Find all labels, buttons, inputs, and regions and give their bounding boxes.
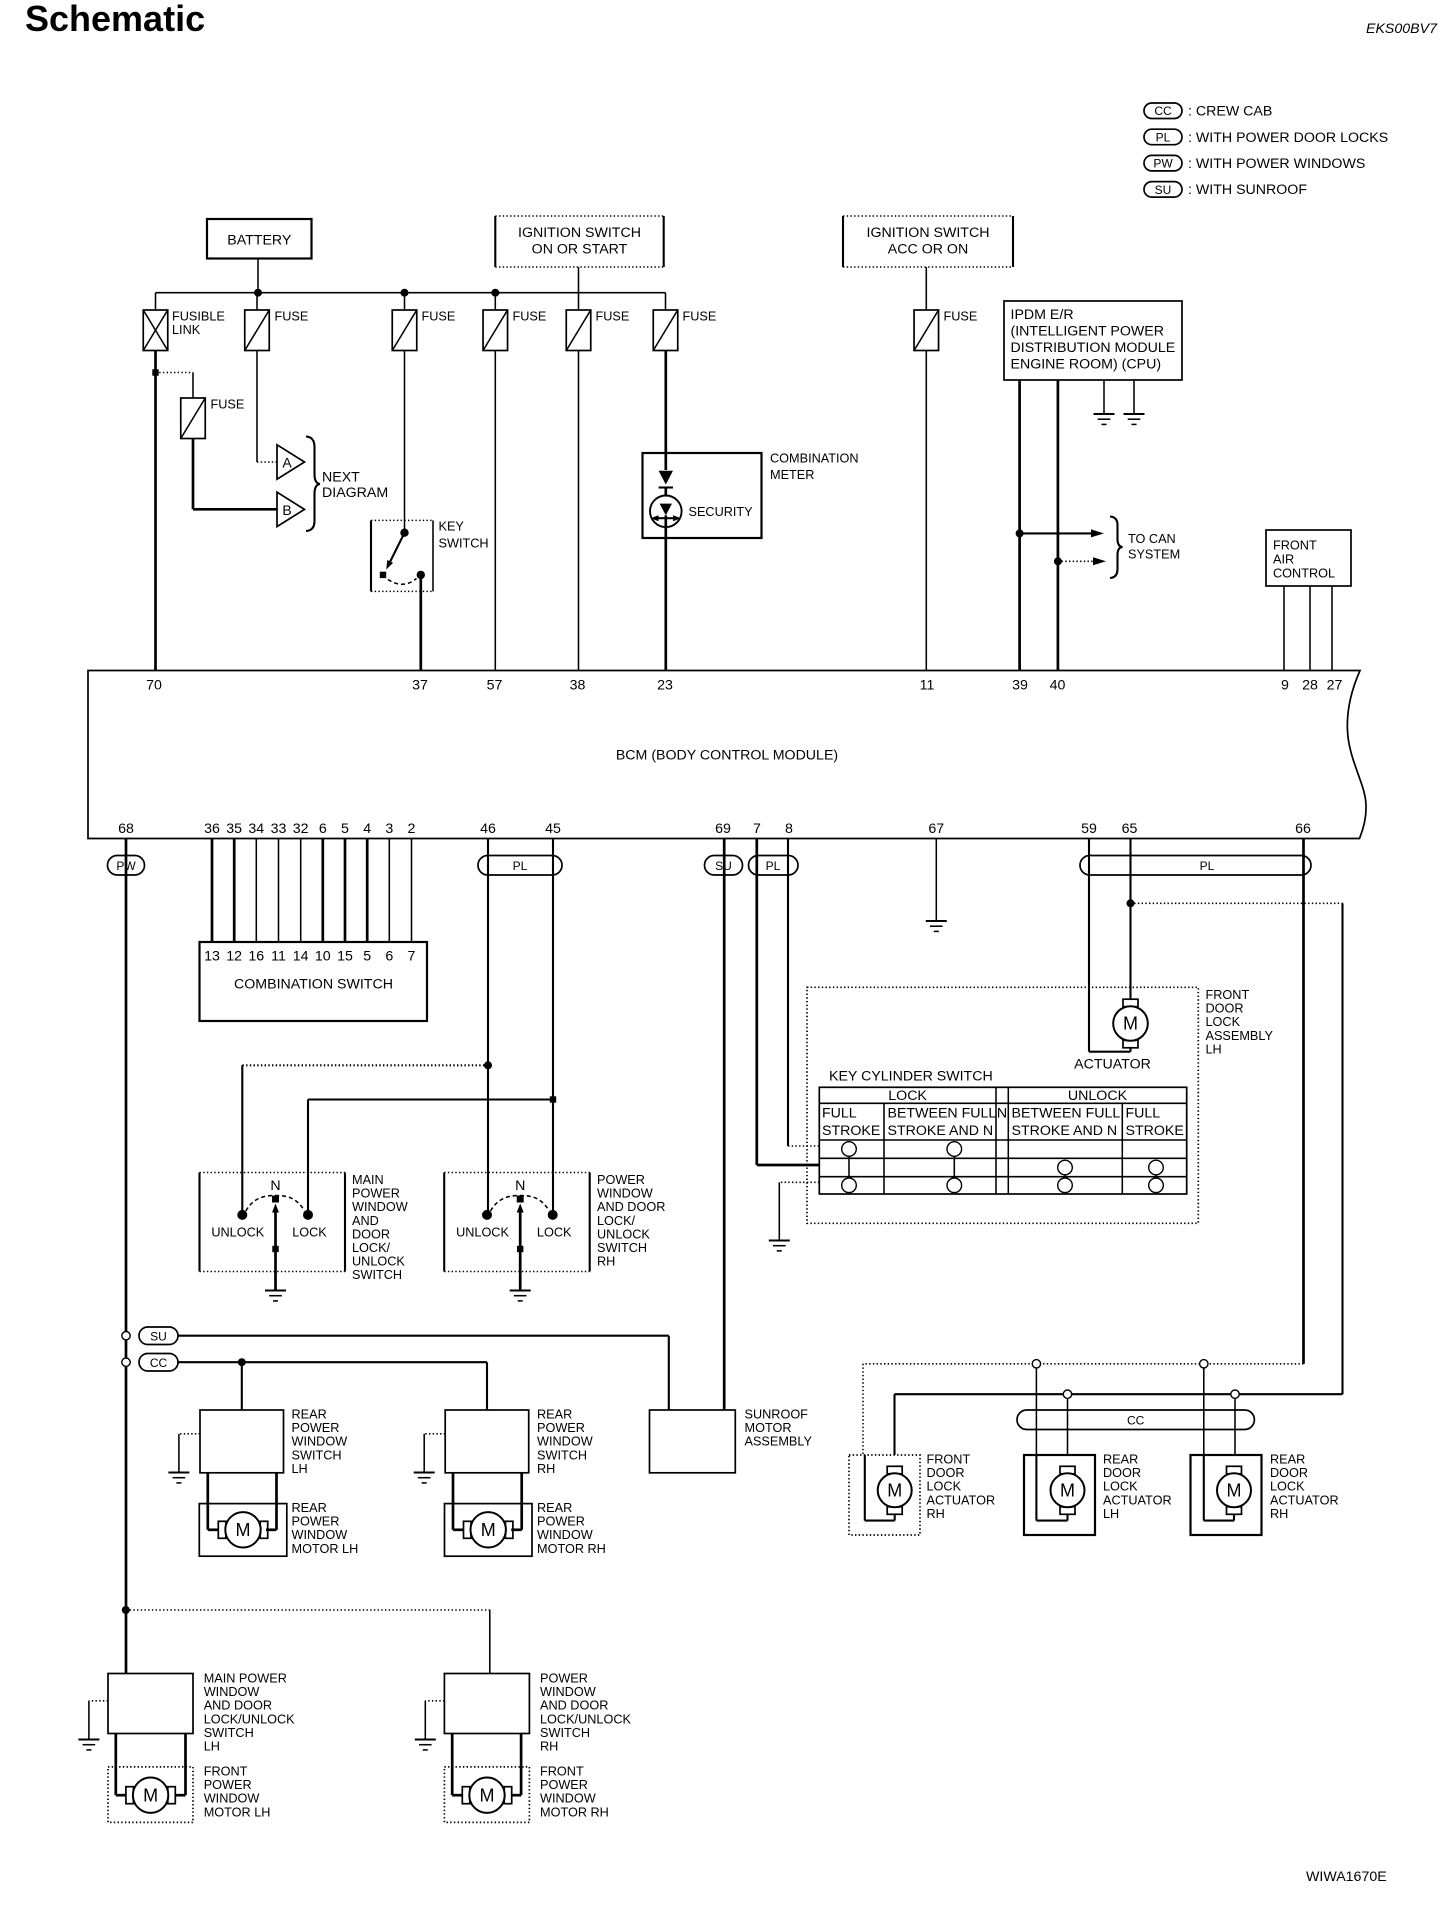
svg-text:: WITH POWER DOOR LOCKS: : WITH POWER DOOR LOCKS — [1188, 130, 1388, 146]
svg-text:WINDOW: WINDOW — [292, 1435, 348, 1449]
combination switch box — [200, 942, 428, 1021]
svg-text:REAR: REAR — [537, 1501, 572, 1515]
connector pill PL (59/65/66) — [1080, 856, 1311, 876]
connector pill CC — [139, 1354, 178, 1372]
svg-text:PW: PW — [1153, 157, 1173, 171]
svg-text:MAIN: MAIN — [352, 1173, 384, 1187]
wire fuse F7 to BCM pin 11 — [925, 351, 927, 671]
rear power window switch LH ground stub — [179, 1433, 200, 1435]
table circle links unlock side — [1064, 1175, 1066, 1178]
svg-text:M: M — [887, 1481, 902, 1501]
bracket CAN — [1110, 517, 1123, 579]
svg-text:LOCK/UNLOCK: LOCK/UNLOCK — [540, 1712, 631, 1726]
svg-text:POWER: POWER — [292, 1421, 340, 1435]
wires switch to motor LH — [206, 1473, 209, 1530]
svg-text:39: 39 — [1012, 678, 1028, 694]
svg-text:45: 45 — [545, 821, 561, 837]
fusible link FL — [143, 310, 168, 351]
svg-text:STROKE AND N: STROKE AND N — [888, 1123, 994, 1139]
power window and door lock/unlock switch RH wiper arrow — [519, 1207, 522, 1272]
arrow to CAN system 2 — [1058, 560, 1094, 562]
connector pill CC (actuators) — [1017, 1410, 1254, 1430]
svg-text:SWITCH: SWITCH — [439, 537, 489, 551]
svg-text:FUSE: FUSE — [211, 398, 245, 412]
svg-text:IPDM E/R: IPDM E/R — [1011, 307, 1074, 323]
svg-text:14: 14 — [293, 949, 309, 965]
svg-text:AND DOOR: AND DOOR — [540, 1699, 608, 1713]
ground switch — [415, 1738, 436, 1740]
svg-text:11: 11 — [920, 678, 935, 694]
svg-text:LH: LH — [1206, 1042, 1222, 1056]
svg-text:(INTELLIGENT POWER: (INTELLIGENT POWER — [1011, 324, 1164, 340]
svg-text:IGNITION SWITCH: IGNITION SWITCH — [518, 225, 641, 241]
front power window motor — [462, 1787, 470, 1804]
svg-text:WIWA1670E: WIWA1670E — [1306, 1869, 1387, 1885]
junction CAN-H — [1016, 529, 1024, 537]
svg-text:STROKE: STROKE — [822, 1123, 880, 1139]
wire FL branch to fuse F8 — [156, 372, 194, 374]
option connector circle 66-net rear RH — [1200, 1360, 1208, 1368]
wire BCM pin 68 PW net down left side — [125, 839, 128, 1674]
svg-text:ASSEMBLY: ASSEMBLY — [745, 1435, 813, 1449]
ground rear power window switch LH — [168, 1471, 189, 1473]
svg-text:LOCK: LOCK — [292, 1226, 327, 1240]
front door lock assembly LH box — [807, 987, 1198, 1223]
rear power window motor RH — [464, 1521, 472, 1538]
wire fuse F2 to triangle A — [256, 351, 258, 463]
svg-text:SWITCH: SWITCH — [204, 1726, 254, 1740]
svg-text:RH: RH — [1270, 1507, 1288, 1521]
svg-text:5: 5 — [363, 949, 371, 965]
svg-text:CC: CC — [1154, 104, 1172, 118]
junction pin45 net — [550, 1096, 556, 1102]
svg-text:MOTOR LH: MOTOR LH — [204, 1805, 271, 1819]
ground IPDM 2 — [1124, 413, 1145, 415]
svg-text:KEY CYLINDER SWITCH: KEY CYLINDER SWITCH — [829, 1069, 993, 1085]
bracket next diagram — [306, 437, 320, 532]
svg-text:SUNROOF: SUNROOF — [745, 1408, 809, 1422]
svg-text:AND DOOR: AND DOOR — [204, 1699, 272, 1713]
svg-text:ENGINE ROOM) (CPU): ENGINE ROOM) (CPU) — [1011, 357, 1162, 373]
svg-text:SWITCH: SWITCH — [537, 1448, 587, 1462]
fuse F5 — [566, 310, 591, 351]
svg-text:COMBINATION SWITCH: COMBINATION SWITCH — [234, 977, 393, 993]
svg-text:LOCK/: LOCK/ — [597, 1214, 636, 1228]
svg-text:BCM (BODY CONTROL MODULE): BCM (BODY CONTROL MODULE) — [616, 748, 838, 764]
wire IPDM to BCM pin 40 — [1057, 380, 1060, 671]
rear door lock actuator LH feed wires — [1035, 1455, 1037, 1521]
option connector circle 66-net rear LH — [1032, 1360, 1040, 1368]
svg-text:POWER: POWER — [204, 1778, 252, 1792]
rear door lock actuator RH box — [1191, 1455, 1262, 1535]
junction bus-fuse F3 — [401, 289, 409, 297]
wire 65-net to rear RH actuator — [1234, 1398, 1236, 1455]
power window and door lock/unlock switch RH wiper junction — [517, 1246, 523, 1252]
rear power window motor LH box — [199, 1504, 286, 1557]
junction FL branch — [152, 369, 158, 375]
wire battery to bus — [257, 259, 259, 293]
svg-text:FULL: FULL — [1126, 1106, 1161, 1122]
svg-text:WINDOW: WINDOW — [597, 1187, 653, 1201]
svg-text:POWER: POWER — [537, 1515, 585, 1529]
svg-text:PL: PL — [766, 859, 781, 873]
wire combination meter to BCM pin 23 — [664, 527, 667, 670]
power window and door lock/unlock switch RH box — [443, 1173, 445, 1272]
svg-text:MAIN POWER: MAIN POWER — [204, 1672, 287, 1686]
svg-text:LOCK: LOCK — [1270, 1480, 1305, 1494]
wire front air control to BCM pin 27 — [1331, 586, 1333, 671]
svg-text:LINK: LINK — [172, 323, 201, 337]
front power window motor box — [444, 1767, 529, 1823]
svg-text:CONTROL: CONTROL — [1273, 567, 1335, 581]
svg-text:7: 7 — [753, 821, 761, 837]
wire key switch to BCM pin 37 — [419, 575, 422, 671]
svg-text:METER: METER — [770, 468, 814, 482]
svg-text:LH: LH — [204, 1740, 220, 1754]
svg-text:27: 27 — [1327, 678, 1343, 694]
diode — [659, 471, 673, 485]
svg-text:LOCK: LOCK — [1206, 1015, 1241, 1029]
power window/door switch box — [108, 1674, 193, 1734]
wires switch to motor — [114, 1734, 117, 1796]
svg-text:AND: AND — [352, 1214, 379, 1228]
ground BCM pin 67 — [926, 920, 947, 922]
svg-text:SECURITY: SECURITY — [689, 505, 754, 519]
wire BCM pin 67 to ground — [935, 839, 937, 922]
svg-text:CC: CC — [1127, 1414, 1145, 1428]
wire IPDM to ground 2 — [1133, 380, 1135, 414]
legend pill PL — [1144, 129, 1182, 145]
svg-text:ACTUATOR: ACTUATOR — [1074, 1057, 1151, 1073]
junction pin46 net — [484, 1061, 492, 1069]
svg-text:68: 68 — [118, 821, 134, 837]
svg-text:PL: PL — [1200, 859, 1215, 873]
legend pill CC — [1144, 103, 1182, 119]
svg-text:11: 11 — [271, 949, 286, 965]
key switch contact in — [400, 529, 408, 537]
svg-text:ACTUATOR: ACTUATOR — [1270, 1493, 1339, 1507]
power window and door lock/unlock switch RH contact UNLOCK — [482, 1210, 492, 1220]
table contact circles row B — [1058, 1160, 1073, 1175]
svg-text:38: 38 — [570, 678, 586, 694]
power window and door lock/unlock switch RH ground — [510, 1289, 531, 1291]
wire front air control to BCM pin 28 — [1309, 586, 1311, 671]
rear door lock actuator RH motor — [1227, 1466, 1242, 1474]
svg-text:STROKE AND N: STROKE AND N — [1012, 1123, 1118, 1139]
svg-text:REAR: REAR — [292, 1408, 327, 1422]
rear door lock actuator LH box — [1024, 1455, 1095, 1535]
svg-text:M: M — [1227, 1481, 1242, 1501]
svg-text:WINDOW: WINDOW — [204, 1792, 260, 1806]
svg-text:32: 32 — [293, 821, 309, 837]
svg-text:70: 70 — [146, 678, 162, 694]
svg-text:LOCK: LOCK — [888, 1088, 927, 1104]
svg-text:POWER: POWER — [352, 1187, 400, 1201]
ground key cylinder switch — [769, 1239, 790, 1241]
svg-text:REAR: REAR — [537, 1408, 572, 1422]
svg-text:POWER: POWER — [292, 1515, 340, 1529]
svg-text:6: 6 — [385, 949, 393, 965]
svg-text:SU: SU — [1155, 183, 1172, 197]
svg-text:FRONT: FRONT — [1273, 539, 1317, 553]
junction bus-battery — [254, 289, 262, 297]
svg-text:FRONT: FRONT — [204, 1765, 248, 1779]
svg-text:15: 15 — [337, 949, 353, 965]
option connector circle 65-net rear RH — [1231, 1390, 1239, 1398]
connector pill PW — [108, 856, 145, 876]
fuse F2 — [245, 310, 270, 351]
main power window and door lock/unlock switch pole square — [272, 1196, 279, 1203]
svg-text:35: 35 — [226, 821, 242, 837]
option connector circle CC tap — [122, 1358, 130, 1366]
connector pill PL (46/45) — [478, 856, 562, 876]
svg-text:M: M — [236, 1520, 251, 1540]
front door lock actuator RH feed wires — [864, 1455, 866, 1521]
svg-text:WINDOW: WINDOW — [540, 1792, 596, 1806]
wire FL to BCM pin 70 — [154, 351, 157, 671]
svg-text:BETWEEN FULL: BETWEEN FULL — [888, 1106, 997, 1122]
svg-text:8: 8 — [785, 821, 793, 837]
svg-text:A: A — [282, 455, 292, 471]
svg-text:LOCK: LOCK — [1103, 1480, 1138, 1494]
svg-text:POWER: POWER — [540, 1778, 588, 1792]
main power window and door lock/unlock switch dashed arc — [246, 1196, 305, 1212]
wire fuse F4 to BCM pin 57 — [494, 351, 496, 671]
svg-text:LOCK/: LOCK/ — [352, 1241, 391, 1255]
wire BCM pin 45 net — [552, 839, 554, 1215]
key switch lever — [389, 533, 405, 565]
svg-text:TO CAN: TO CAN — [1128, 532, 1176, 546]
wire CC net to rear window switches — [178, 1361, 487, 1363]
svg-text:REAR: REAR — [292, 1501, 327, 1515]
off-page triangle B — [277, 492, 305, 526]
wires switch to motor — [451, 1734, 454, 1796]
svg-text:B: B — [282, 502, 291, 518]
svg-text:EKS00BV7: EKS00BV7 — [1366, 21, 1438, 37]
wires BCM pins 36-2 to combination switch — [211, 839, 214, 943]
svg-text:36: 36 — [204, 821, 220, 837]
svg-text:KEY: KEY — [439, 520, 465, 534]
front power window motor — [126, 1787, 133, 1804]
wire PW branch to switch RH — [126, 1609, 490, 1611]
switch ground stub — [425, 1700, 444, 1702]
battery power bus — [156, 292, 666, 294]
svg-text:7: 7 — [408, 949, 416, 965]
combination meter box — [643, 453, 762, 538]
junction PW net branch — [122, 1606, 130, 1614]
power window and door lock/unlock switch RH pole square — [517, 1196, 524, 1203]
wire ignition ON/START to fuse F5 — [578, 267, 580, 310]
table contact circles row C — [842, 1178, 857, 1193]
svg-text:DISTRIBUTION MODULE: DISTRIBUTION MODULE — [1011, 340, 1176, 356]
svg-text:Schematic: Schematic — [25, 0, 205, 39]
fuse F7 — [914, 310, 939, 351]
svg-text:RH: RH — [597, 1255, 615, 1269]
BCM body control module box — [88, 671, 1366, 839]
svg-text:RH: RH — [927, 1507, 945, 1521]
svg-text:28: 28 — [1302, 678, 1318, 694]
svg-text:DOOR: DOOR — [1270, 1466, 1308, 1480]
key switch dashed arc — [388, 579, 417, 585]
svg-text:UNLOCK: UNLOCK — [211, 1226, 264, 1240]
svg-text:FULL: FULL — [822, 1106, 857, 1122]
wires switch to motor RH — [452, 1473, 455, 1530]
svg-text:WINDOW: WINDOW — [292, 1528, 348, 1542]
svg-text:9: 9 — [1281, 678, 1289, 694]
wire table row C to ground — [779, 1181, 819, 1183]
key switch contact pole — [380, 572, 386, 578]
connector pill SU (69) — [705, 856, 743, 876]
svg-text:REAR: REAR — [1270, 1453, 1305, 1467]
main power window and door lock/unlock switch wiper junction — [272, 1246, 278, 1252]
svg-text:FUSIBLE: FUSIBLE — [172, 310, 225, 324]
svg-text:PL: PL — [1156, 130, 1171, 144]
svg-text:MOTOR: MOTOR — [745, 1421, 792, 1435]
table contact circles row A — [842, 1142, 857, 1157]
front door lock actuator RH box — [849, 1455, 920, 1535]
battery box — [207, 219, 312, 259]
ground switch — [78, 1738, 99, 1740]
svg-text:POWER: POWER — [537, 1421, 585, 1435]
svg-text:REAR: REAR — [1103, 1453, 1138, 1467]
junction bus-fuse F4 — [491, 289, 499, 297]
svg-text:: CREW CAB: : CREW CAB — [1188, 104, 1272, 120]
junction CAN-L — [1054, 557, 1062, 565]
svg-text:POWER: POWER — [540, 1672, 588, 1686]
svg-text:AND DOOR: AND DOOR — [597, 1200, 665, 1214]
svg-text:23: 23 — [657, 678, 673, 694]
main power window and door lock/unlock switch wiper arrow — [274, 1207, 277, 1272]
svg-text:N: N — [515, 1178, 525, 1194]
legend pill SU — [1144, 182, 1182, 198]
svg-text:37: 37 — [412, 678, 428, 694]
svg-text:SU: SU — [150, 1330, 167, 1344]
svg-text:M: M — [481, 1520, 496, 1540]
svg-text:DIAGRAM: DIAGRAM — [322, 485, 388, 501]
svg-text:SWITCH: SWITCH — [292, 1448, 342, 1462]
svg-text:M: M — [1060, 1481, 1075, 1501]
svg-text:MOTOR RH: MOTOR RH — [540, 1805, 609, 1819]
svg-text:BETWEEN FULL: BETWEEN FULL — [1012, 1106, 1121, 1122]
legend pill PW — [1144, 155, 1182, 171]
wire BCM pin 59 into assembly — [1088, 839, 1090, 1052]
svg-text:LOCK/UNLOCK: LOCK/UNLOCK — [204, 1712, 295, 1726]
svg-text:69: 69 — [715, 821, 731, 837]
svg-text:DOOR: DOOR — [927, 1466, 965, 1480]
svg-text:59: 59 — [1081, 821, 1097, 837]
svg-text:N: N — [270, 1178, 280, 1194]
option connector circle SU tap — [122, 1332, 130, 1340]
svg-text:FUSE: FUSE — [513, 310, 547, 324]
svg-text:BATTERY: BATTERY — [227, 233, 292, 249]
svg-text:FRONT: FRONT — [540, 1765, 584, 1779]
svg-text:65: 65 — [1122, 821, 1138, 837]
key switch box — [370, 520, 372, 591]
svg-text:RH: RH — [540, 1740, 558, 1754]
svg-text:N: N — [997, 1106, 1007, 1122]
svg-text:66: 66 — [1295, 821, 1311, 837]
svg-text:: WITH SUNROOF: : WITH SUNROOF — [1188, 182, 1307, 198]
front power window motor box — [108, 1767, 193, 1823]
sunroof motor assembly box — [650, 1410, 736, 1473]
wire 65-net to rear LH actuator — [1067, 1398, 1069, 1455]
rear power window switch LH box — [200, 1410, 284, 1473]
wire fuse F3 to key switch — [404, 351, 406, 533]
svg-text:WINDOW: WINDOW — [204, 1685, 260, 1699]
svg-text:ACTUATOR: ACTUATOR — [1103, 1493, 1172, 1507]
rear door lock actuator LH motor — [1060, 1466, 1075, 1474]
svg-text:40: 40 — [1050, 678, 1066, 694]
main power window and door lock/unlock switch box — [198, 1173, 200, 1272]
rear power window switch RH ground stub — [424, 1433, 445, 1435]
wire SU net to sunroof motor — [178, 1335, 669, 1337]
wire IPDM to BCM pin 39 — [1018, 380, 1021, 671]
svg-text:46: 46 — [480, 821, 496, 837]
svg-text:FRONT: FRONT — [1206, 988, 1250, 1002]
svg-text:16: 16 — [248, 949, 264, 965]
wire 66-net to rear RH actuator — [1203, 1368, 1205, 1455]
svg-text:STROKE: STROKE — [1126, 1123, 1184, 1139]
svg-text:34: 34 — [248, 821, 264, 837]
wire BCM pin 69 to sunroof motor — [723, 839, 726, 1411]
svg-text:FUSE: FUSE — [683, 310, 717, 324]
svg-text:13: 13 — [204, 949, 220, 965]
svg-text:WINDOW: WINDOW — [537, 1435, 593, 1449]
key cylinder switch table frame — [819, 1087, 1186, 1194]
connector pill PL (7/8) — [749, 856, 799, 876]
power window and door lock/unlock switch RH wire to ground — [519, 1272, 522, 1291]
svg-text:DOOR: DOOR — [352, 1227, 390, 1241]
svg-text:FUSE: FUSE — [944, 310, 978, 324]
svg-text:SWITCH: SWITCH — [352, 1268, 402, 1282]
off-page triangle A — [277, 445, 305, 479]
svg-text:UNLOCK: UNLOCK — [597, 1227, 650, 1241]
svg-text:MOTOR RH: MOTOR RH — [537, 1542, 606, 1556]
svg-text:LH: LH — [1103, 1507, 1119, 1521]
svg-text:4: 4 — [363, 821, 371, 837]
svg-text:33: 33 — [271, 821, 287, 837]
wire BCM pin 65 to actuator motor — [1129, 839, 1131, 1000]
fuse F3 — [392, 310, 417, 351]
rear power window motor LH — [218, 1521, 226, 1538]
rear door lock actuator RH feed wires — [1203, 1455, 1205, 1521]
main power window and door lock/unlock switch contact UNLOCK — [237, 1210, 247, 1220]
svg-text:IGNITION SWITCH: IGNITION SWITCH — [867, 225, 990, 241]
svg-text:MOTOR LH: MOTOR LH — [292, 1542, 359, 1556]
svg-text:FUSE: FUSE — [422, 310, 456, 324]
wire fuse F8 to triangle B — [192, 439, 195, 510]
svg-text:5: 5 — [341, 821, 349, 837]
svg-text:WINDOW: WINDOW — [540, 1685, 596, 1699]
svg-text:RH: RH — [537, 1462, 555, 1476]
svg-text:M: M — [480, 1785, 495, 1805]
wire fuse F6 to combination meter — [664, 351, 667, 471]
main power window and door lock/unlock switch contact LOCK — [303, 1210, 313, 1220]
svg-text:FUSE: FUSE — [275, 310, 309, 324]
svg-text:CC: CC — [150, 1356, 168, 1370]
svg-text:FUSE: FUSE — [596, 310, 630, 324]
main power window and door lock/unlock switch ground — [265, 1289, 286, 1291]
IPDM E/R box — [1004, 301, 1182, 380]
connector pill SU — [139, 1327, 178, 1345]
svg-text:: WITH POWER WINDOWS: : WITH POWER WINDOWS — [1188, 156, 1365, 172]
svg-text:ASSEMBLY: ASSEMBLY — [1206, 1029, 1274, 1043]
rear power window switch RH box — [445, 1410, 529, 1473]
main power window and door lock/unlock switch wire to ground — [274, 1272, 277, 1291]
key switch contact out — [417, 571, 425, 579]
svg-text:COMBINATION: COMBINATION — [770, 452, 859, 466]
ignition switch ACC/ON box — [842, 216, 844, 267]
